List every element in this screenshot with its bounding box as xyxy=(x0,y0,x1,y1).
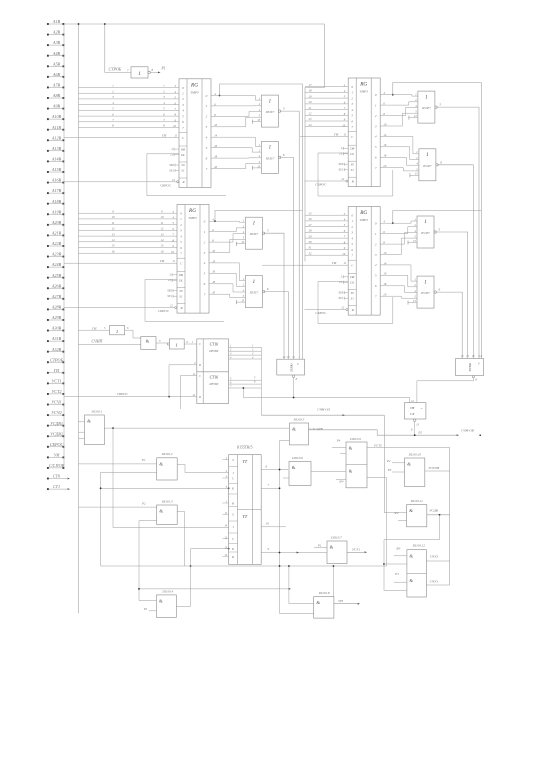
svg-text:1: 1 xyxy=(424,220,427,225)
svg-text:СТРОБ: СТРОБ xyxy=(109,66,122,71)
svg-text:S1: S1 xyxy=(179,294,183,298)
svg-text:4: 4 xyxy=(375,135,377,139)
wire - register output to gate input xyxy=(215,228,241,232)
or-gate DD5.2 output bubble xyxy=(278,156,280,158)
svg-text:2: 2 xyxy=(341,275,343,279)
node - strobe branch xyxy=(104,23,106,25)
svg-text:&: & xyxy=(159,509,163,514)
svg-text:ГИ: ГИ xyxy=(53,368,60,373)
and-gate DD10.2 body xyxy=(157,458,178,480)
register DD1 (RG1) body xyxy=(179,79,211,188)
svg-text:А1В: А1В xyxy=(52,19,61,24)
svg-text:А11В: А11В xyxy=(51,125,61,130)
svg-text:C: C xyxy=(199,374,202,378)
wire - gate D output to N2 feed xyxy=(437,165,473,359)
wire - RG3 Q0 top line xyxy=(215,211,303,222)
svg-text:4: 4 xyxy=(204,261,206,265)
wire - DD10.8 input 1 from y566 tap xyxy=(289,603,314,605)
svg-text:УСДВ2: УСДВ2 xyxy=(50,431,63,436)
svg-text:|Р3: |Р3 xyxy=(396,547,401,551)
svg-text:4: 4 xyxy=(375,263,377,267)
svg-text:2: 2 xyxy=(351,225,353,229)
svg-text:УСДВ1: УСДВ1 xyxy=(50,421,63,426)
node - DD10.12 input junction xyxy=(383,563,385,565)
wire - DD10.8 output УН xyxy=(334,603,357,605)
wire - branch down from DD10.1 output to TT J2 xyxy=(112,428,114,527)
svg-text:K: K xyxy=(231,547,235,551)
svg-text:И5ЛЕ7: И5ЛЕ7 xyxy=(420,292,430,295)
wire - register output to gate input xyxy=(215,273,241,286)
svg-text:DD10.3: DD10.3 xyxy=(161,499,173,503)
svg-text:И5ЛЕ7: И5ЛЕ7 xyxy=(421,107,431,110)
or-gate DD6.1 tied input xyxy=(409,117,418,119)
svg-text:А27В: А27В xyxy=(51,294,62,299)
svg-text:1: 1 xyxy=(204,230,206,234)
comparator U2 СН=СЛ body xyxy=(404,403,426,419)
wire - DD10.9 lower output xyxy=(367,478,387,566)
svg-text:&: & xyxy=(159,461,163,466)
svg-text:5: 5 xyxy=(439,228,441,232)
svg-text:1: 1 xyxy=(299,356,301,359)
svg-text:8: 8 xyxy=(152,68,154,72)
node - DD10.11 output branch xyxy=(439,514,441,516)
wire - counter outputs collector vertical xyxy=(260,347,262,415)
wire - register output to gate input xyxy=(217,117,257,127)
svg-text:13: 13 xyxy=(112,232,116,236)
svg-text:RG: RG xyxy=(190,82,198,88)
wire - register output to gate input xyxy=(386,157,415,165)
wire - register output to gate input xyxy=(386,108,414,116)
or-gate DD6.1 "1" xyxy=(418,91,435,123)
svg-text:R: R xyxy=(351,179,354,183)
svg-text:И5ЛЕ7: И5ЛЕ7 xyxy=(420,232,430,235)
wire - DD10.4 output up to long line y=566 xyxy=(176,566,190,606)
svg-text:RG: RG xyxy=(359,210,367,216)
svg-text:1: 1 xyxy=(180,217,182,221)
svg-text:Р3: Р3 xyxy=(394,572,399,576)
svg-text:УСТ2: УСТ2 xyxy=(51,389,61,394)
connector pin А1В xyxy=(47,23,49,25)
svg-text:6: 6 xyxy=(266,465,268,469)
svg-text:12: 12 xyxy=(172,178,175,182)
svg-text:ГОТОВ: ГОТОВ xyxy=(428,466,440,470)
svg-text:А9В: А9В xyxy=(52,104,61,109)
wire - register output to gate input xyxy=(386,168,415,171)
svg-text:2: 2 xyxy=(172,147,174,151)
node - reset junction xyxy=(168,396,170,398)
svg-text:4: 4 xyxy=(226,476,228,479)
wire - DD10.3 input 2 from net down to DD10.4 xyxy=(139,520,157,522)
svg-text:2: 2 xyxy=(375,114,377,118)
svg-text:ТМР3: ТМР3 xyxy=(188,216,197,220)
svg-text:А20В: А20В xyxy=(51,220,62,225)
wire - gate H output to N2 feed xyxy=(435,292,462,358)
wire - DD10.11 output xyxy=(427,514,450,516)
connector pin А5В xyxy=(47,65,49,67)
svg-text:1: 1 xyxy=(426,153,429,158)
svg-text:7: 7 xyxy=(204,293,206,297)
svg-text:&: & xyxy=(409,578,413,583)
svg-text:26: 26 xyxy=(309,217,313,221)
svg-text:9: 9 xyxy=(478,363,480,366)
svg-text:DR: DR xyxy=(178,273,183,277)
svg-text:S1: S1 xyxy=(351,296,355,300)
svg-text:7: 7 xyxy=(163,118,165,122)
svg-text:5: 5 xyxy=(180,240,182,244)
gate U1 strobe shaper "1" xyxy=(131,67,148,78)
or-gate DD7.2 "1" xyxy=(245,276,262,308)
connector pin А23В xyxy=(47,256,49,258)
wire - register output to gate input xyxy=(386,275,413,287)
connector pin УСДВ1 xyxy=(47,425,49,427)
svg-text:14: 14 xyxy=(161,238,165,242)
wire - register output to gate input xyxy=(217,112,257,117)
svg-text:1: 1 xyxy=(226,501,228,504)
svg-text:12: 12 xyxy=(341,306,344,310)
and-gate DD10.4 body xyxy=(156,595,176,618)
svg-text:6: 6 xyxy=(180,246,182,250)
wire - register output to gate input xyxy=(217,137,257,146)
wire - feed bus for right registers x=305 xyxy=(304,88,306,262)
svg-text:3: 3 xyxy=(159,340,161,343)
wire - K2 feed from x=190.6 net xyxy=(191,548,229,550)
connector pin А3В xyxy=(47,44,49,46)
svg-text:ИЕ5В9: ИЕ5В9 xyxy=(208,349,218,353)
svg-text:А10В: А10В xyxy=(51,114,62,119)
svg-text:11: 11 xyxy=(225,512,228,515)
wire - right collector vertical x=279.5 xyxy=(280,441,290,614)
svg-text:СБРОС: СБРОС xyxy=(160,183,172,187)
or-gate DD7.1 "1" xyxy=(245,217,262,249)
svg-text:Р5: Р5 xyxy=(387,468,392,472)
svg-text:12: 12 xyxy=(292,356,295,359)
or-gate DD8.2 output bubble xyxy=(434,291,436,293)
connector pin СТРОБ xyxy=(47,361,49,363)
connector pin А19В xyxy=(47,213,49,215)
wire - main left vertical bus x=78.5 xyxy=(78,24,80,613)
wire - strobe drop x=104.8 xyxy=(105,24,131,72)
svg-text:ТМР3: ТМР3 xyxy=(190,90,199,94)
svg-text:1: 1 xyxy=(375,103,377,107)
svg-text:SЕ0: SЕ0 xyxy=(167,289,172,293)
or-gate DD7.1 output bubble xyxy=(262,232,264,234)
svg-text:DD10.12: DD10.12 xyxy=(412,544,426,548)
svg-text:19: 19 xyxy=(309,94,313,98)
svg-text:4: 4 xyxy=(351,236,353,240)
gate DD9.1 "1" ГИ shaper xyxy=(110,326,125,335)
svg-text:1: 1 xyxy=(269,99,272,104)
connector pin А24В xyxy=(47,266,49,268)
svg-text:32: 32 xyxy=(309,251,313,255)
connector pin А9В xyxy=(47,108,49,110)
svg-text:21: 21 xyxy=(309,106,313,110)
svg-text:14: 14 xyxy=(283,356,286,359)
connector pin А12В xyxy=(47,139,49,141)
svg-text:6: 6 xyxy=(283,153,285,157)
svg-text:1: 1 xyxy=(351,219,353,223)
or-gate DD8.1 "1" xyxy=(417,216,434,248)
svg-text:20: 20 xyxy=(309,100,313,104)
wire - RG4 Q0 top line xyxy=(393,211,482,224)
svg-text:7: 7 xyxy=(180,252,182,256)
svg-text:5: 5 xyxy=(104,327,106,330)
svg-text:7: 7 xyxy=(206,167,208,171)
connector pin А8В xyxy=(47,97,49,99)
svg-text:3: 3 xyxy=(180,229,182,233)
svg-text:DD10.4: DD10.4 xyxy=(161,589,173,593)
svg-text:11: 11 xyxy=(172,259,175,263)
svg-text:А30В: А30В xyxy=(51,326,62,331)
svg-text:J: J xyxy=(232,471,234,475)
svg-text:6: 6 xyxy=(112,112,114,116)
wire - DD9.2 output to DD9.3 xyxy=(156,342,168,344)
wire - register output to gate input xyxy=(217,105,257,107)
or-gate DD6.2 tied input xyxy=(410,174,419,176)
svg-text:2: 2 xyxy=(112,89,114,93)
svg-text:СБРОС: СБРОС xyxy=(315,183,327,187)
nand N2 55ЛА1 body xyxy=(456,359,484,376)
wire - СЧН-ОЛ drop to DD10.11 xyxy=(383,415,385,513)
svg-text:DD10.1: DD10.1 xyxy=(91,409,103,413)
wire - DD10.8 input 2 from collector via y=613 segment xyxy=(280,612,314,614)
register DD2 (RG2) body xyxy=(348,78,380,187)
svg-text:6: 6 xyxy=(182,120,184,124)
svg-text:5: 5 xyxy=(182,114,184,118)
nand N2 output bubble and wire to comparator xyxy=(472,376,474,378)
svg-text:7: 7 xyxy=(112,118,114,122)
svg-text:55ЛА1: 55ЛА1 xyxy=(290,363,294,372)
wire - long line y=566 xyxy=(101,565,387,567)
connector pin А16В xyxy=(47,182,49,184)
wire - DD10.7 output УСТ1 xyxy=(347,551,364,553)
node - junction at 139 xyxy=(138,588,140,590)
svg-text:4: 4 xyxy=(180,234,182,238)
nand N1 output bubble and wire to comparator xyxy=(292,375,294,377)
svg-text:SЕ1: SЕ1 xyxy=(339,168,344,172)
svg-text:9: 9 xyxy=(161,209,163,213)
svg-text:C: C xyxy=(199,342,202,346)
svg-text:&: & xyxy=(407,462,411,467)
svg-text:14: 14 xyxy=(112,238,116,242)
connector pin А11В xyxy=(47,129,49,131)
svg-text:А8В: А8В xyxy=(52,93,61,98)
register DD4 (RG4) body xyxy=(348,207,380,316)
svg-text:УСТ1: УСТ1 xyxy=(352,548,360,552)
svg-text:1: 1 xyxy=(206,104,208,108)
svg-text:SЕ1: SЕ1 xyxy=(339,296,344,300)
svg-text:0: 0 xyxy=(206,94,208,98)
svg-text:10: 10 xyxy=(112,215,116,219)
svg-text:ГИ: ГИ xyxy=(333,133,339,137)
svg-text:DD10.6: DD10.6 xyxy=(291,456,303,460)
svg-text:21: 21 xyxy=(170,152,173,156)
svg-text:И5ЛЕ7: И5ЛЕ7 xyxy=(249,292,259,295)
wire - top corner drop x=324.5 xyxy=(305,24,325,88)
svg-text:3: 3 xyxy=(351,231,353,235)
gate DD9.2 "&" СЧИП xyxy=(141,337,156,350)
wire - register output to gate input xyxy=(217,96,257,101)
svg-text:6: 6 xyxy=(254,381,256,384)
svg-text:16: 16 xyxy=(161,249,165,253)
svg-text:ТМР3: ТМР3 xyxy=(359,90,368,94)
svg-text:7: 7 xyxy=(127,69,129,73)
svg-text:С/1СЛДВ: С/1СЛДВ xyxy=(310,427,323,431)
svg-text:Р2: Р2 xyxy=(417,431,422,435)
svg-text:15: 15 xyxy=(224,554,227,557)
svg-text:1: 1 xyxy=(112,84,114,88)
svg-text:|Р4: |Р4 xyxy=(339,480,344,484)
svg-text:24: 24 xyxy=(309,123,313,127)
svg-text:C: C xyxy=(351,135,354,139)
svg-text:13: 13 xyxy=(161,232,165,236)
and-gate DD10.5 body xyxy=(290,423,309,445)
svg-text:А16В: А16В xyxy=(51,178,62,183)
svg-text:ТТ: ТТ xyxy=(242,459,247,464)
node - N1 output junction xyxy=(293,397,295,399)
connector pin А20В xyxy=(47,224,49,226)
svg-text:DD10.9: DD10.9 xyxy=(349,437,361,441)
svg-text:DD10.10: DD10.10 xyxy=(408,452,422,456)
svg-text:6: 6 xyxy=(187,341,189,344)
and-gate DD10.8 body xyxy=(314,597,334,618)
wire - СЧН-ОВ output line from DD10.5 xyxy=(309,430,457,435)
svg-text:10: 10 xyxy=(161,215,165,219)
svg-text:УСЧ2: УСЧ2 xyxy=(51,410,62,415)
wire - register output to gate input xyxy=(386,227,413,234)
svg-text:0: 0 xyxy=(180,212,182,216)
wire - register output to gate input xyxy=(215,294,241,298)
wire - register output to gate input xyxy=(386,102,414,105)
svg-text:J: J xyxy=(232,525,234,529)
svg-text:6: 6 xyxy=(206,156,208,160)
svg-text:DR: DR xyxy=(180,147,185,151)
wire - counter lower R from reset rail xyxy=(169,396,197,398)
svg-text:RG: RG xyxy=(188,208,196,214)
svg-text:СЧН-ОЛ: СЧН-ОЛ xyxy=(317,408,330,412)
svg-text:0: 0 xyxy=(351,85,353,89)
svg-text:И5ЛЕ7: И5ЛЕ7 xyxy=(265,111,275,114)
svg-text:9: 9 xyxy=(297,363,299,366)
connector pin А4В xyxy=(47,55,49,57)
connector pin А7В xyxy=(47,86,49,88)
svg-text:R: R xyxy=(231,555,234,559)
svg-text:СЛ: СЛ xyxy=(410,412,415,416)
svg-text:4: 4 xyxy=(163,101,165,105)
and-gate DD10.12 body (dual) xyxy=(407,550,427,597)
svg-text:6: 6 xyxy=(267,287,269,291)
svg-text:C: C xyxy=(232,476,235,480)
svg-text:SЕ1: SЕ1 xyxy=(167,294,172,298)
wire - register output to gate input xyxy=(386,232,413,244)
svg-text:ГИ: ГИ xyxy=(331,261,337,265)
svg-text:13: 13 xyxy=(416,424,419,427)
connector pin А2В xyxy=(47,34,49,36)
node - collector junctions xyxy=(279,469,281,471)
wire - gate C output to N2 feed xyxy=(436,107,479,358)
svg-text:И5ЛЕ7: И5ЛЕ7 xyxy=(249,233,259,236)
svg-text:5: 5 xyxy=(351,114,353,118)
wire - tap from y566 down to DD10.8 top xyxy=(332,566,334,597)
svg-text:8: 8 xyxy=(163,124,165,128)
svg-text:3: 3 xyxy=(112,95,114,99)
svg-text:УИ: УИ xyxy=(54,453,61,458)
svg-text:C: C xyxy=(232,537,235,541)
connector pin ГИ xyxy=(47,372,49,374)
wire - СЧН-ОЛ signal line xyxy=(261,414,384,416)
svg-text:DL: DL xyxy=(349,152,354,156)
svg-text:И5ЛЕ7: И5ЛЕ7 xyxy=(265,157,275,160)
svg-text:DL: DL xyxy=(180,153,185,157)
svg-text:29: 29 xyxy=(309,234,313,238)
svg-text:K: K xyxy=(231,487,235,491)
svg-text:И5ЛЕ7: И5ЛЕ7 xyxy=(422,165,432,168)
svg-text:13: 13 xyxy=(466,355,469,358)
svg-text:S0: S0 xyxy=(351,162,355,166)
svg-text:А17В: А17В xyxy=(51,188,62,193)
or-gate DD8.2 tied input xyxy=(408,302,417,304)
svg-text:R: R xyxy=(198,363,201,367)
wire - DD10.2 input 2 from below xyxy=(101,472,157,566)
svg-text:S: S xyxy=(232,458,234,462)
svg-text:Р4: Р4 xyxy=(336,439,341,443)
svg-text:21: 21 xyxy=(339,280,342,284)
svg-text:14: 14 xyxy=(224,525,227,528)
svg-text:А19В: А19В xyxy=(51,209,62,214)
svg-text:1: 1 xyxy=(116,329,118,334)
node - RG2 Q0 junction xyxy=(392,94,394,96)
or-gate DD5.1 output bubble xyxy=(278,110,280,112)
svg-text:А32В: А32В xyxy=(51,347,62,352)
svg-text:Р2: Р2 xyxy=(141,502,146,506)
svg-text:5: 5 xyxy=(375,145,377,149)
flip-flop DD12 output Q2 pin 10 xyxy=(261,526,286,528)
svg-text:0: 0 xyxy=(182,86,184,90)
svg-text:СБРОС: СБРОС xyxy=(158,309,170,313)
svg-text:DR: DR xyxy=(349,147,354,151)
svg-text:3: 3 xyxy=(163,95,165,99)
svg-text:6: 6 xyxy=(351,248,353,252)
wire - DD10.9 upper output УСТ2 xyxy=(367,447,450,449)
svg-text:5: 5 xyxy=(206,146,208,150)
wire - comparator output down to СЧН-ОВ line xyxy=(414,421,416,435)
svg-text:4: 4 xyxy=(112,101,114,105)
svg-text:2: 2 xyxy=(375,242,377,246)
wire - DD10.1 output long line to DD10.5 xyxy=(104,427,289,429)
svg-text:3: 3 xyxy=(375,124,377,128)
svg-text:2: 2 xyxy=(351,96,353,100)
connector pin УИ xyxy=(47,456,49,458)
svg-text:1: 1 xyxy=(182,92,184,96)
node - RG3 Q0 junction xyxy=(214,220,216,222)
svg-text:R: R xyxy=(179,306,182,310)
svg-text:21: 21 xyxy=(168,278,171,282)
svg-text:25: 25 xyxy=(309,211,313,215)
svg-text:СБРОС: СБРОС xyxy=(50,442,64,447)
or-gate DD5.1 tied input xyxy=(252,121,261,123)
connector pin А26В xyxy=(47,287,49,289)
wire - DD10.2 input 1 xyxy=(79,463,157,465)
svg-text:СН: СН xyxy=(410,406,415,410)
wire - register output to gate input xyxy=(386,286,413,293)
wire - RG2 Q0 top line to N2 xyxy=(393,83,482,359)
svg-text:1: 1 xyxy=(192,341,194,344)
or-gate DD7.2 output bubble xyxy=(262,290,264,292)
wire - DD10.10 Р2 input stub xyxy=(392,462,405,464)
comparator U2 output bubble xyxy=(414,419,416,421)
svg-text:&: & xyxy=(87,419,91,424)
svg-text:УСЧ1: УСЧ1 xyxy=(51,400,62,405)
svg-text:А14В: А14В xyxy=(51,157,62,162)
